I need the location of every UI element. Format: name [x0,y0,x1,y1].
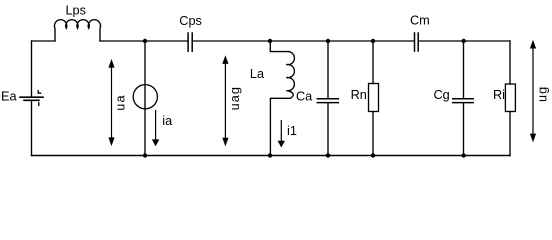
svg-text:Cps: Cps [179,14,202,28]
svg-text:La: La [250,67,265,81]
svg-text:Rn: Rn [351,88,367,102]
svg-text:Cg: Cg [434,88,450,102]
svg-text:i1: i1 [287,124,297,138]
svg-text:ug: ug [536,86,550,102]
svg-text:Ca: Ca [296,89,313,103]
svg-text:Lps: Lps [66,3,86,17]
svg-text:Cm: Cm [410,13,430,27]
svg-text:ia: ia [162,114,173,128]
svg-text:uag: uag [228,86,242,110]
svg-text:Ri: Ri [493,88,505,102]
svg-text:Ea: Ea [1,89,17,103]
svg-text:ua: ua [114,94,128,110]
